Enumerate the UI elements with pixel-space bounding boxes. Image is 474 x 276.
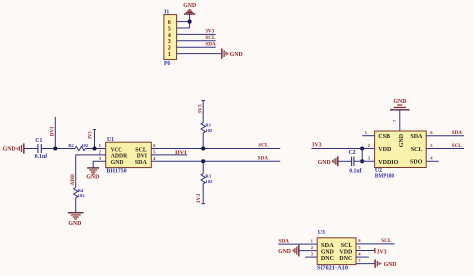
svg-text:0.1uf: 0.1uf xyxy=(35,154,47,160)
svg-text:ADD: ADD xyxy=(70,174,76,185)
power port GND right of J1 xyxy=(222,48,243,58)
svg-text:DNC: DNC xyxy=(321,256,334,262)
svg-text:CSB: CSB xyxy=(378,134,390,140)
junction DVI xyxy=(53,146,57,150)
junction R3/SDA xyxy=(201,159,205,163)
svg-text:3V3: 3V3 xyxy=(196,193,202,203)
svg-text:SDA: SDA xyxy=(321,243,335,249)
wire R1 to SCL xyxy=(202,133,204,149)
junction pin3 xyxy=(360,159,364,163)
svg-text:SDA: SDA xyxy=(410,134,423,140)
wire J1 pin3 net SCL xyxy=(177,40,216,42)
capacitor C1 0.1uf xyxy=(35,138,47,160)
svg-text:SDO: SDO xyxy=(410,160,423,166)
svg-text:2: 2 xyxy=(99,150,101,155)
svg-text:GND: GND xyxy=(111,160,124,166)
resistor R4 xyxy=(74,188,86,199)
ground at U1 pin3 xyxy=(86,168,99,181)
power port 3V3 stem at VCC xyxy=(94,130,96,149)
IC U2 BMP180 xyxy=(375,131,427,179)
wire J1 pin4 net 3V3 xyxy=(177,33,216,35)
svg-text:GND: GND xyxy=(278,249,291,255)
svg-text:GND: GND xyxy=(399,133,405,147)
wire GND stem to pins 6,5 xyxy=(189,14,191,28)
junction R1/SCL xyxy=(201,146,205,150)
wire C2 to VDDIO pin3 xyxy=(354,160,374,162)
wire GND pin3 xyxy=(93,161,106,167)
svg-text:102: 102 xyxy=(205,128,213,133)
wire GND to U2 pin7 xyxy=(399,110,401,131)
IC U1 BH1750 xyxy=(106,137,152,174)
svg-text:VDDIO: VDDIO xyxy=(378,160,398,166)
svg-text:VCC: VCC xyxy=(111,147,122,153)
svg-text:1: 1 xyxy=(168,51,171,58)
svg-text:GND: GND xyxy=(68,221,81,227)
svg-text:GND: GND xyxy=(321,249,335,255)
svg-text:VDD: VDD xyxy=(378,147,392,153)
svg-text:DVI: DVI xyxy=(137,154,148,160)
connector J1 xyxy=(164,9,177,67)
svg-text:U3: U3 xyxy=(318,230,325,236)
svg-text:DVI: DVI xyxy=(175,150,186,156)
svg-text:C1: C1 xyxy=(35,138,42,144)
svg-text:3V3: 3V3 xyxy=(377,249,387,255)
svg-text:BH1750: BH1750 xyxy=(106,169,126,175)
svg-text:SCL: SCL xyxy=(411,147,423,153)
wire pin2 to pin3 vertical xyxy=(361,149,363,162)
junction xyxy=(188,20,192,24)
wire SCL pin5 xyxy=(426,148,464,150)
svg-text:4: 4 xyxy=(358,251,361,256)
svg-text:SCL: SCL xyxy=(452,143,463,149)
power port GND left of C1 xyxy=(17,143,24,153)
wire J1 pin6 xyxy=(177,21,190,23)
svg-text:5: 5 xyxy=(358,245,360,250)
svg-text:6: 6 xyxy=(358,238,361,243)
wire CSB pin1 stub xyxy=(362,135,374,137)
wire C1 to R2 xyxy=(42,148,75,150)
svg-text:3V3: 3V3 xyxy=(312,142,322,148)
wire DNC pin3 stub xyxy=(305,256,317,258)
wire J1 pin1 to GND xyxy=(177,53,222,55)
svg-text:SCL: SCL xyxy=(341,243,353,249)
svg-text:0.1uf: 0.1uf xyxy=(349,168,361,174)
svg-text:6: 6 xyxy=(153,143,156,148)
wire SCL long xyxy=(151,148,280,150)
svg-text:R1: R1 xyxy=(205,122,211,127)
svg-text:1: 1 xyxy=(365,130,367,135)
svg-text:SDA: SDA xyxy=(258,156,269,162)
svg-text:3V3: 3V3 xyxy=(88,131,94,139)
capacitor C2 0.1uf xyxy=(349,150,362,174)
svg-text:4: 4 xyxy=(430,156,433,161)
svg-text:2: 2 xyxy=(368,143,370,148)
wire R2 to U1 VCC xyxy=(85,148,105,150)
power port GND left of C2 xyxy=(333,156,338,166)
svg-text:Si7021-A10: Si7021-A10 xyxy=(317,266,348,272)
svg-text:DNC: DNC xyxy=(339,256,352,262)
svg-text:GND: GND xyxy=(230,52,243,58)
svg-text:BMP180: BMP180 xyxy=(375,173,394,179)
svg-text:SCL: SCL xyxy=(135,147,147,153)
svg-text:SCL: SCL xyxy=(258,143,269,149)
svg-text:GND: GND xyxy=(394,99,407,105)
wire GND to C1 xyxy=(24,148,38,150)
wire DVI stub xyxy=(151,154,187,156)
svg-text:C2: C2 xyxy=(349,150,356,156)
svg-text:GND: GND xyxy=(86,175,99,181)
svg-text:3V3: 3V3 xyxy=(205,29,214,35)
wire 3V3 pin5 xyxy=(356,250,375,252)
svg-text:ADDR: ADDR xyxy=(111,154,128,160)
svg-text:3V3: 3V3 xyxy=(197,104,203,114)
wire SDA long xyxy=(151,160,280,162)
svg-text:GND: GND xyxy=(3,147,16,153)
junction 3V3 xyxy=(92,146,96,150)
wire SDA to R3 xyxy=(202,161,204,173)
svg-text:SDA: SDA xyxy=(205,41,216,47)
svg-text:SCL: SCL xyxy=(205,35,216,41)
svg-text:5: 5 xyxy=(430,143,432,148)
wire ADDR pin2 xyxy=(76,155,106,188)
svg-text:SCL: SCL xyxy=(381,238,392,244)
wire J1 pin2 net SDA xyxy=(177,46,216,48)
node DVI stem xyxy=(54,117,56,149)
power port GND left of U3 pin2 xyxy=(293,245,299,257)
wire 3V3 to VDD pin2 xyxy=(311,148,374,150)
svg-text:SDA: SDA xyxy=(452,130,463,136)
power port GND right of U3 pin7 xyxy=(375,259,396,268)
svg-text:P6: P6 xyxy=(164,61,171,67)
power port 3V3 bar xyxy=(374,248,376,253)
svg-text:GND: GND xyxy=(183,3,196,9)
wire 3V3 to R1 xyxy=(202,101,204,123)
svg-text:SDA: SDA xyxy=(135,160,148,166)
ground below R4 xyxy=(68,213,84,227)
svg-text:1: 1 xyxy=(311,238,313,243)
wire SCL pin6 xyxy=(356,243,395,245)
svg-text:102: 102 xyxy=(205,179,213,184)
svg-text:VDD: VDD xyxy=(339,249,353,255)
power port GND above U2 xyxy=(390,99,410,110)
wire J1 pin5 xyxy=(177,27,190,29)
svg-text:GND: GND xyxy=(318,160,331,166)
power port 3V3 below R3 (vertical) xyxy=(201,203,205,205)
wire R4 to ground xyxy=(75,198,77,213)
wire GND to C2 xyxy=(338,160,351,162)
svg-text:7: 7 xyxy=(358,258,361,263)
resistor R2 xyxy=(68,143,89,151)
wire DNC pin4 stub xyxy=(356,256,369,258)
wire SDO pin4 stub xyxy=(426,160,439,162)
svg-text:102: 102 xyxy=(78,193,86,198)
power port GND above J1 xyxy=(183,3,196,14)
wire SDA pin6 xyxy=(426,135,464,137)
svg-text:6: 6 xyxy=(430,130,433,135)
wire SDA pin1 xyxy=(278,243,317,245)
wire R3 to 3V3 xyxy=(202,184,204,204)
svg-text:4: 4 xyxy=(153,156,156,161)
IC U3 Si7021-A10 xyxy=(317,230,356,272)
svg-text:R2: R2 xyxy=(68,143,74,148)
svg-text:GND: GND xyxy=(384,262,397,268)
wire GND pin7 xyxy=(356,263,375,265)
resistor R1 xyxy=(201,122,213,133)
svg-text:DVI: DVI xyxy=(50,127,56,137)
svg-text:3: 3 xyxy=(368,156,370,161)
svg-text:5: 5 xyxy=(153,150,155,155)
svg-text:3: 3 xyxy=(311,251,313,256)
junction pin2 xyxy=(360,146,364,150)
svg-text:3: 3 xyxy=(99,156,101,161)
svg-text:1: 1 xyxy=(99,143,101,148)
wire GND to pin2 xyxy=(299,250,317,252)
svg-text:2: 2 xyxy=(311,245,313,250)
svg-text:R3: R3 xyxy=(205,174,211,179)
svg-text:7: 7 xyxy=(392,119,397,122)
resistor R3 xyxy=(201,174,213,185)
